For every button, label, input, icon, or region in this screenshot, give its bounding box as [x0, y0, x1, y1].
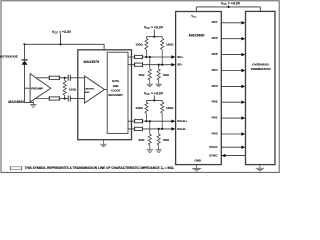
- arrow SD- into MAX3680: [171, 63, 175, 66]
- arrow SYNC (into MAX3680): [221, 154, 225, 157]
- node R4-SD+: [149, 56, 151, 58]
- svg-text:PD3: PD3: [212, 84, 218, 88]
- svg-text:50Ω: 50Ω: [163, 73, 169, 77]
- wire PD3: [221, 85, 241, 87]
- border frame: [1, 1, 279, 173]
- wire PCLK: [221, 146, 241, 148]
- svg-text:MAX3664: MAX3664: [8, 100, 24, 104]
- wire MAX3680 vcc stem: [195, 7, 197, 12]
- wire PD7: [221, 22, 241, 24]
- block: overhead termination: [246, 11, 276, 164]
- arrow PCLK: [241, 146, 245, 149]
- svg-text:130Ω: 130Ω: [135, 42, 143, 46]
- wires MAX3675 data outputs: [128, 57, 172, 129]
- node vcc label stem right: [227, 6, 229, 8]
- wire PD4: [221, 70, 241, 72]
- svg-text:50Ω: 50Ω: [139, 73, 145, 77]
- wire vcc stem bottom net: [153, 95, 155, 100]
- transmission line T3 (SD+): [135, 55, 143, 60]
- svg-text:PD4: PD4: [212, 68, 218, 72]
- svg-text:PD0: PD0: [212, 131, 218, 135]
- resistor R9 50ohm right: [157, 129, 160, 150]
- wire vcc stem top net: [153, 29, 155, 36]
- arrow SD+ into MAX3680: [171, 55, 175, 58]
- wire SCLK+ stub: [128, 120, 172, 122]
- op-amp U1 preamp: [30, 74, 51, 102]
- svg-text:TERMINATION: TERMINATION: [251, 67, 271, 71]
- node preamp top out: [64, 77, 66, 79]
- svg-text:50Ω: 50Ω: [163, 138, 169, 142]
- wire SCLK- stub: [128, 128, 172, 130]
- svg-text:AMP: AMP: [85, 91, 90, 94]
- svg-text:OVERHEAD: OVERHEAD: [252, 62, 268, 66]
- wire caps to limiting amp bottom: [71, 98, 85, 100]
- svg-text:VCC = +3.3V: VCC = +3.3V: [221, 2, 241, 7]
- svg-text:THIS SYMBOL REPRESENTS A TRANS: THIS SYMBOL REPRESENTS A TRANSMISSION LI…: [25, 166, 175, 171]
- node R3-SD-: [161, 64, 163, 66]
- svg-text:PREAMP: PREAMP: [31, 86, 43, 90]
- svg-text:PHOTODIODE: PHOTODIODE: [0, 54, 18, 58]
- wire PD6: [221, 38, 241, 40]
- arrow PD7: [241, 21, 245, 24]
- resistor R1 100ohm: [63, 79, 66, 98]
- wire photodiode anode to preamp input: [25, 65, 34, 103]
- node: rail-photodiode junction: [23, 43, 25, 45]
- wire PD0: [221, 133, 241, 135]
- arrow PD4: [241, 69, 245, 72]
- svg-text:SD+: SD+: [177, 55, 183, 59]
- wire rail bottom net: [146, 99, 162, 101]
- transmission line T6 (SCLK-): [135, 127, 143, 132]
- svg-text:GND: GND: [194, 159, 202, 163]
- svg-text:SYNC: SYNC: [209, 153, 218, 157]
- svg-text:SCLK-: SCLK-: [177, 127, 186, 131]
- arrow SCLK+ into MAX3680: [171, 120, 175, 123]
- wire VCC rail left: [25, 44, 105, 50]
- wire rail top net: [146, 36, 162, 38]
- svg-text:130Ω: 130Ω: [135, 106, 143, 110]
- svg-text:VCC: VCC: [191, 14, 197, 19]
- resistor R4 50ohm left: [148, 57, 151, 84]
- wire PD2: [221, 101, 241, 103]
- wire preamp output top: [36, 77, 68, 79]
- IC U3 MAX3680 block: [176, 12, 222, 165]
- block: data and clock recovery: [107, 52, 128, 133]
- ground (R8): [147, 150, 153, 153]
- ground (R9): [156, 150, 162, 153]
- wire photodiode cathode: [24, 44, 26, 60]
- node preamp bottom out: [64, 97, 66, 99]
- wire vcc rail right: [196, 7, 260, 11]
- node R2-SD+: [145, 56, 147, 58]
- svg-text:MAX3675: MAX3675: [84, 60, 100, 64]
- ground (R4): [147, 84, 153, 87]
- svg-text:SCLK+: SCLK+: [177, 119, 187, 123]
- transmission line T4 (SD-): [135, 62, 143, 67]
- arrow PD6: [241, 37, 245, 40]
- transmission line T5 (SCLK+): [135, 119, 143, 124]
- ground (MAX3680 GND): [192, 165, 201, 171]
- IC U2 MAX3675 block: [78, 50, 132, 140]
- arrow PD1: [241, 116, 245, 119]
- svg-text:PD5: PD5: [212, 52, 218, 56]
- wire limiting amp to cdr: [105, 89, 108, 91]
- resistor R5 50ohm right: [157, 65, 160, 84]
- ground (termination block): [256, 165, 265, 171]
- node R8-SCLK+: [149, 120, 151, 122]
- resistor R8 50ohm left: [148, 121, 151, 150]
- wire PD1: [221, 117, 241, 119]
- svg-text:MAX3680: MAX3680: [189, 33, 205, 37]
- capacitor C2: [68, 96, 70, 102]
- resistor R3 130ohm right: [161, 37, 164, 65]
- svg-text:CLOCK: CLOCK: [111, 88, 120, 92]
- svg-text:PD1: PD1: [212, 116, 218, 120]
- svg-text:PD2: PD2: [212, 100, 218, 104]
- node stem-rail: [153, 36, 155, 38]
- node R7-SCLK-: [161, 128, 163, 130]
- wire vcc label stem right: [228, 5, 230, 7]
- svg-text:50Ω: 50Ω: [139, 138, 145, 142]
- svg-text:VCC = +3.3V: VCC = +3.3V: [144, 91, 164, 96]
- svg-text:LIMITING: LIMITING: [85, 89, 95, 91]
- svg-text:AND: AND: [113, 84, 119, 88]
- capacitor C1: [68, 75, 70, 81]
- wire VCC stem left: [60, 34, 62, 45]
- ground (R5): [156, 84, 162, 87]
- node stem-rail bottom: [153, 99, 155, 101]
- ground (preamp): [30, 101, 36, 107]
- pins PD7..PD0 / PCLK wires and labels: [221, 23, 245, 156]
- wire PD5: [221, 54, 241, 56]
- arrow PD2: [241, 101, 245, 104]
- resistor R2 130ohm left: [145, 37, 148, 57]
- photodiode D1: [21, 60, 27, 65]
- node: rail-vcc junction: [59, 43, 61, 45]
- node R5-SD-: [158, 64, 160, 66]
- transmission line T2 (preamp out bottom): [49, 96, 59, 101]
- resistor R7 130ohm right: [161, 100, 164, 128]
- svg-text:130Ω: 130Ω: [166, 42, 174, 46]
- footnote transmission line symbol: [10, 166, 21, 170]
- node R6-SCLK+: [145, 120, 147, 122]
- wire caps to limiting amp top: [71, 77, 85, 79]
- transmission line T1 (preamp out top): [49, 76, 59, 81]
- arrow PD5: [241, 53, 245, 56]
- ground (MAX3675): [100, 140, 106, 147]
- arrow PD3: [241, 85, 245, 88]
- wire SD- stub: [128, 64, 172, 66]
- svg-text:PD7: PD7: [212, 20, 218, 24]
- arrow PD0: [241, 132, 245, 135]
- op-amp U2a limiting amp: [85, 76, 105, 103]
- arrow SCLK- into MAX3680: [171, 127, 175, 130]
- svg-text:130Ω: 130Ω: [166, 106, 174, 110]
- node R9-SCLK-: [158, 128, 160, 130]
- svg-text:PCLK: PCLK: [209, 145, 218, 149]
- svg-text:VCC = +3.3V: VCC = +3.3V: [144, 25, 164, 30]
- svg-text:SD-: SD-: [177, 63, 182, 67]
- wire preamp output bottom: [36, 98, 68, 100]
- svg-text:PD6: PD6: [212, 36, 218, 40]
- svg-text:100Ω: 100Ω: [69, 88, 77, 92]
- svg-text:RECOVERY: RECOVERY: [108, 93, 123, 97]
- wire SD+ stub: [128, 56, 172, 58]
- resistor R6 130ohm left: [145, 100, 148, 121]
- wire SYNC: [225, 155, 245, 157]
- svg-text:VCC = +3.3V: VCC = +3.3V: [52, 30, 72, 35]
- svg-text:DATA: DATA: [112, 79, 119, 83]
